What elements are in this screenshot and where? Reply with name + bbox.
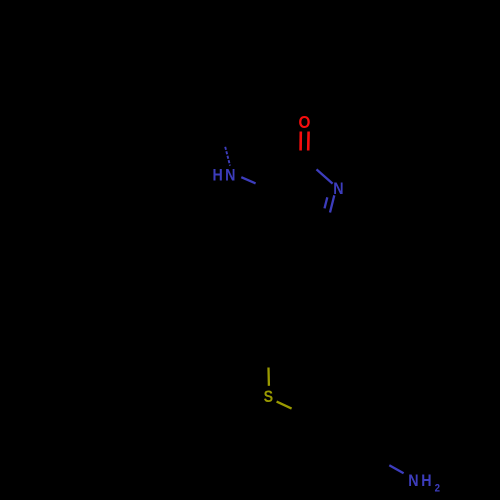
svg-text:2: 2: [435, 483, 441, 495]
svg-text:O: O: [299, 113, 311, 132]
bond CH2-S upper half (carbon side): [267, 347, 269, 368]
svg-text:H: H: [421, 472, 431, 490]
bond C2=O double bond (oxygen half, red): [299, 132, 302, 151]
svg-text:S: S: [264, 388, 274, 406]
ring bond C3=C4: [266, 189, 285, 230]
ring bond C4-C5: [285, 224, 328, 229]
bond N1=C5 lower halves (carbon side): [328, 213, 330, 225]
bond HN-C3 left half (blue): [241, 177, 255, 183]
bond C4'-NH2 ring half (carbon side): [376, 458, 390, 466]
benzene ring: [305, 396, 377, 477]
svg-text:H: H: [213, 167, 223, 185]
bond C6-N(HN) dark stub of hashed bond: [222, 139, 223, 145]
bond HN-C3 right half (carbon side): [256, 183, 266, 188]
hashed stereo bond C6-N(HN) (blue, thin broken line): [225, 147, 230, 166]
bond CH2-S lower half (yellow): [267, 368, 270, 386]
ring bond C2-C3: [266, 159, 304, 189]
bond C2-N1 upper half (carbon side): [304, 159, 317, 170]
bond C2-N1 lower half (blue): [317, 169, 333, 183]
svg-text:N: N: [225, 167, 235, 185]
bond S-C1' left half (yellow): [277, 402, 292, 409]
bond S-C1' right half (carbon side): [292, 409, 306, 415]
wire chain C4 to S: [258, 229, 285, 347]
svg-text:N: N: [408, 472, 418, 490]
bond C4'-NH2 half (blue): [389, 465, 403, 473]
benzene inner aromatic lines: [310, 420, 313, 452]
wire alkyl chain on stereocenter C6: [105, 124, 222, 140]
bond C2=O dark stubs near carbonyl carbon: [301, 151, 303, 159]
svg-text:N: N: [333, 180, 343, 198]
bond N1=C5 upper halves (blue): [330, 195, 334, 212]
